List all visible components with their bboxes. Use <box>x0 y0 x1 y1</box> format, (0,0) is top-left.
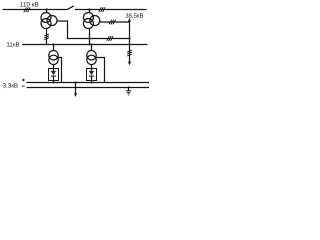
wire 110kV line left segment <box>3 9 68 11</box>
rectifier U1 diode symbol <box>51 71 56 76</box>
svg-text:3,3кВ: 3,3кВ <box>3 83 18 90</box>
wire T1 low-voltage drop to 11kV bus <box>46 28 48 44</box>
wire unit2 transformer to rectifier box <box>91 65 93 71</box>
bus 3.3kV plus <box>27 82 150 84</box>
node junction rectifier unit 1 tap <box>52 43 54 45</box>
arrowhead down at bottom of feeder <box>128 62 131 66</box>
hatch break mark on link line <box>107 36 113 41</box>
wire ground stem <box>128 88 130 91</box>
wire drop to unit 2 transformer <box>91 45 93 51</box>
arrowhead catenary feeder <box>74 93 77 97</box>
hatch break mark on 38.5 feed <box>109 20 115 25</box>
node junction ground tap on minus bus <box>127 86 129 88</box>
svg-text:11кВ: 11кВ <box>6 41 19 48</box>
rectifier U2 diode symbol <box>89 71 94 76</box>
svg-text:38,5кВ: 38,5кВ <box>125 13 143 20</box>
hatch break mark on 110kV line right <box>99 7 105 12</box>
node junction feeder with 11kV bus <box>128 43 130 45</box>
hatch break mark on T1 drop <box>44 34 49 40</box>
node junction feeder with link line <box>128 37 130 39</box>
wire drop to unit 1 transformer <box>53 45 55 51</box>
wire T1 middle-winding link right and down <box>57 21 129 39</box>
svg-text:110 кВ: 110 кВ <box>20 2 39 9</box>
wire drop to transformer T2 <box>89 10 91 13</box>
wire rectifier U2 output to plus bus <box>91 76 93 82</box>
node junction T2 tap on 110kV line <box>88 8 90 10</box>
transformer T2 (three-winding 110/38.5/11) <box>83 13 99 29</box>
wire unit1 transformer side return to plus bus <box>57 58 61 83</box>
bus 3.3kV minus <box>27 87 150 89</box>
rectifier U1 box <box>49 69 59 81</box>
minus sign <box>22 85 25 87</box>
transformer unit1 (two-winding rectifier transformer) <box>49 51 58 65</box>
transformer unit2 (two-winding rectifier transformer) <box>87 51 96 65</box>
wire catenary feeder down <box>75 83 77 95</box>
wire unit2 transformer side return to plus bus <box>96 58 105 83</box>
node junction T1 drop on bus <box>46 44 48 46</box>
bus 11kV <box>22 44 148 46</box>
node junction U1 output on plus bus <box>53 82 55 84</box>
ground symbol (hatched triangle) <box>126 91 131 95</box>
wire drop to transformer T1 <box>46 10 48 13</box>
wire 110kV line right segment <box>75 9 147 11</box>
disconnect switch QS1 blade <box>67 6 74 10</box>
wire rectifier U1 output to plus bus <box>53 76 55 82</box>
wire T2 middle winding feed to 38.5kV <box>99 21 129 23</box>
wire unit1 transformer to rectifier box <box>53 65 55 71</box>
wire T2 bottom drop to 11kV bus <box>89 28 91 44</box>
38.5kV vertical feeder line <box>129 20 131 63</box>
node junction link with T2 drop <box>88 37 90 39</box>
transformer T1 (three-winding 110/38.5/11) <box>41 13 57 29</box>
arrowhead up at top of 38.5kV feeder <box>128 18 131 22</box>
node junction T2 drop on bus <box>89 44 91 46</box>
node junction T1 tap on 110kV line <box>46 8 48 10</box>
rectifier U2 box <box>87 69 97 81</box>
plus sign <box>22 79 25 82</box>
hatch break mark on vertical feeder <box>127 50 132 56</box>
node junction U2 output on plus bus <box>91 82 93 84</box>
node junction rectifier unit 2 tap <box>90 43 92 45</box>
node junction catenary feeder on plus bus <box>74 81 76 83</box>
hatch break mark on 110kV line left <box>24 7 30 12</box>
